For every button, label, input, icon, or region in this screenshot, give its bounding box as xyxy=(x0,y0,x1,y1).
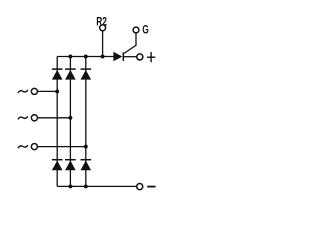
diode D3 (top, leg 3) cathode bar xyxy=(81,68,92,70)
diode D6 (bottom, leg 3) cathode bar xyxy=(81,159,92,161)
wire bridge leg 1 vertical xyxy=(56,57,58,187)
diode D3 (top, leg 3) triangle xyxy=(81,70,92,80)
AC source symbol ~ phase 3 xyxy=(18,146,27,148)
diode D6 (bottom, leg 3) triangle xyxy=(81,161,92,171)
wire bottom rail (negative DC rail) xyxy=(57,185,136,187)
svg-text:G: G xyxy=(142,24,149,37)
junction dot top rail / leg 2 xyxy=(68,55,72,59)
label + (plus sign) xyxy=(147,52,155,62)
thyristor Q1 cathode bar xyxy=(122,52,124,61)
terminal circle AC phase 2 xyxy=(31,115,37,121)
wire AC phase 2 to leg 2 xyxy=(38,117,71,119)
diode D1 (top, leg 1) cathode bar xyxy=(52,68,63,70)
terminal circle R2 xyxy=(100,25,106,31)
terminal circle AC phase 1 xyxy=(31,88,37,94)
diode D5 (bottom, leg 2) cathode bar xyxy=(65,159,76,161)
wire thyristor cathode to + terminal xyxy=(123,56,136,58)
junction dot bottom rail / leg 3 xyxy=(84,184,88,188)
wire top rail (positive DC rail to thyristor anode) xyxy=(57,56,114,58)
terminal circle G xyxy=(133,27,139,33)
wire R2 terminal stub xyxy=(102,31,104,57)
AC source symbol ~ phase 2 xyxy=(18,117,27,119)
junction dot top rail / leg 3 xyxy=(84,55,88,59)
label - (minus sign) xyxy=(147,186,155,188)
wire bridge leg 3 vertical xyxy=(85,57,87,187)
wire AC phase 1 to leg 1 xyxy=(38,90,58,92)
wire thyristor gate lead xyxy=(124,33,136,53)
diode D2 (top, leg 2) cathode bar xyxy=(65,68,76,70)
thyristor Q1 anode triangle xyxy=(114,53,121,61)
diode D4 (bottom, leg 1) triangle xyxy=(52,161,63,171)
junction dot bottom rail / leg 2 xyxy=(68,184,72,188)
svg-text:R2: R2 xyxy=(96,16,107,29)
junction dot phase 1 / leg 1 xyxy=(55,89,59,93)
terminal circle + xyxy=(137,54,143,60)
diode D5 (bottom, leg 2) triangle xyxy=(65,161,76,171)
diode D2 (top, leg 2) triangle xyxy=(65,70,76,80)
junction dot phase 2 / leg 2 xyxy=(68,116,72,120)
diode D1 (top, leg 1) triangle xyxy=(52,70,63,80)
junction dot phase 3 / leg 3 xyxy=(84,145,88,149)
wire bridge leg 2 vertical xyxy=(69,57,71,187)
terminal circle - xyxy=(137,184,143,190)
AC source symbol ~ phase 1 xyxy=(18,90,27,92)
terminal circle AC phase 3 xyxy=(31,144,37,150)
diode D4 (bottom, leg 1) cathode bar xyxy=(52,159,63,161)
junction dot top rail / R2 stub xyxy=(101,55,105,59)
wire AC phase 3 to leg 3 xyxy=(38,146,86,148)
